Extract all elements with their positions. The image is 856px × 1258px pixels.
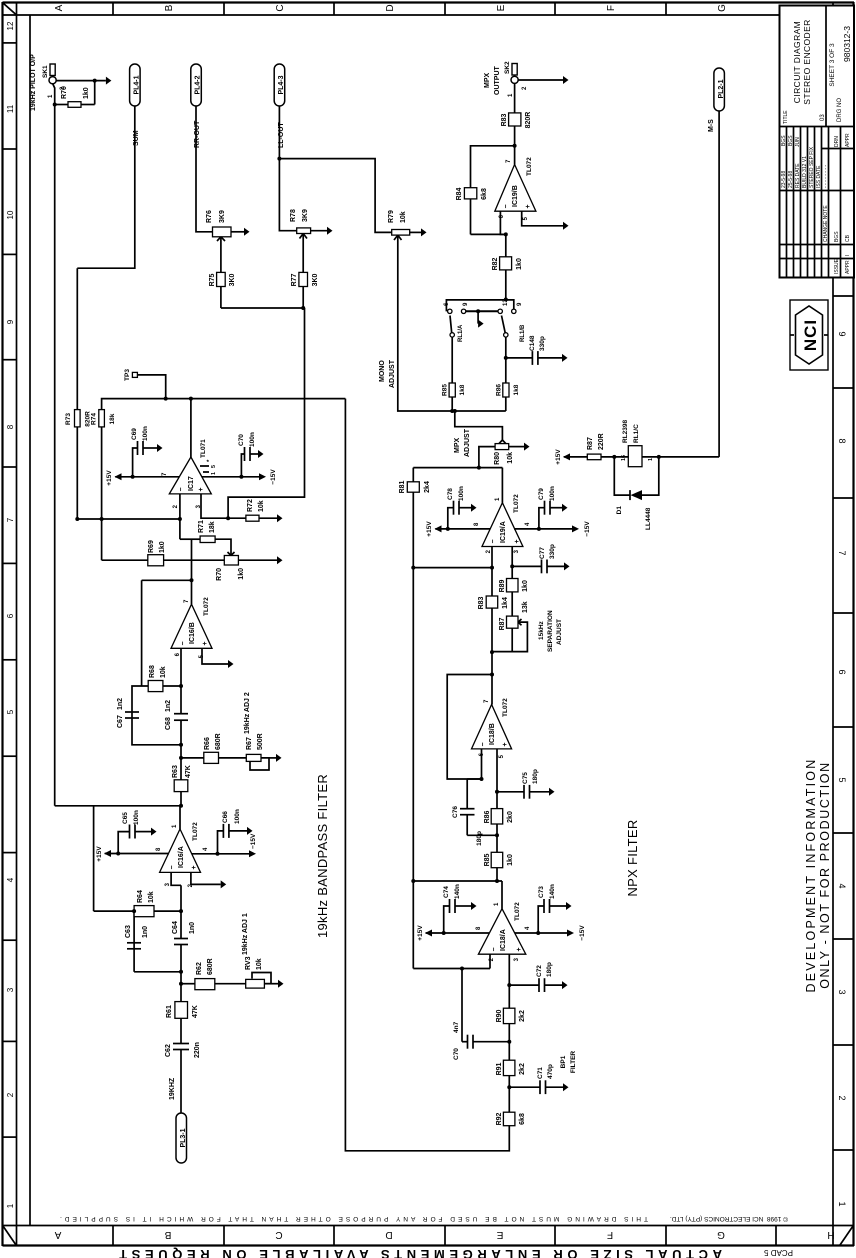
svg-text:© 1998 NCI ELECTRONICS (PTY): © 1998 NCI ELECTRONICS (PTY) LTD.: [670, 1215, 788, 1223]
svg-text:6: 6: [6, 613, 15, 618]
svg-text:8: 8: [476, 926, 482, 930]
capacitor C76 180p: [466, 779, 468, 809]
trimmer R80 10k MPX ADJUST: [495, 444, 509, 450]
svg-text:3: 3: [165, 882, 171, 886]
node output feedback: [513, 144, 517, 148]
svg-text:ADJUST: ADJUST: [464, 428, 471, 457]
svg-text:F: F: [606, 5, 617, 11]
svg-text:+15V: +15V: [417, 925, 424, 941]
wire feedback down: [471, 233, 506, 235]
svg-text:TL072: TL072: [203, 597, 210, 616]
svg-text:THIS DRAWING MUST NOT BE USED: THIS DRAWING MUST NOT BE USED FOR ANY PU…: [57, 1215, 648, 1222]
node pilot R70: [53, 103, 57, 107]
svg-text:100n: 100n: [458, 486, 465, 501]
svg-text:9: 9: [463, 302, 469, 306]
svg-text:H: H: [827, 1229, 834, 1240]
right strip letters A-G: [54, 4, 728, 12]
node IC19/A output: [477, 466, 481, 470]
capacitor C63: [127, 948, 141, 950]
resistor R66 680R: [204, 752, 219, 763]
wire pin2 vertical to long line: [413, 968, 490, 970]
svg-text:C148: C148: [529, 335, 536, 351]
svg-text:R68: R68: [149, 665, 156, 678]
svg-text:+: +: [191, 865, 198, 869]
wire R81 to output vertical: [412, 468, 414, 482]
svg-text:9: 9: [837, 331, 847, 336]
connector SK2: [511, 76, 518, 83]
svg-text:+: +: [202, 641, 209, 645]
wire chain to C64: [180, 945, 182, 972]
connector PL3 19KHZ input pill: [176, 1113, 187, 1163]
svg-text:R71: R71: [198, 520, 205, 533]
wire R70 to SK1 ground net: [94, 81, 96, 105]
node C70 chain: [507, 1040, 511, 1044]
node summing/R74: [100, 517, 104, 521]
svg-text:180p: 180p: [476, 831, 483, 846]
svg-text:CHANGE NOTE: CHANGE NOTE: [823, 205, 829, 242]
svg-text:CIRCUIT DIAGRAM: CIRCUIT DIAGRAM: [792, 21, 802, 103]
svg-text:10k: 10k: [148, 891, 155, 903]
svg-text:TL072: TL072: [513, 494, 520, 513]
wire IC18/A apex: [501, 881, 503, 909]
node C71: [507, 1085, 511, 1089]
svg-text:19kHz ADJ 1: 19kHz ADJ 1: [242, 913, 249, 955]
ground line with R69: [102, 559, 148, 561]
wire R87 to coil: [601, 456, 628, 458]
svg-text:2k0: 2k0: [507, 811, 514, 823]
svg-text:2: 2: [837, 1095, 847, 1100]
svg-text:820R: 820R: [525, 112, 532, 129]
power +15V IC19/A pin8: [435, 528, 490, 530]
node C73: [536, 931, 540, 935]
connector PL4-3 LL-OUT pill: [274, 64, 285, 106]
revision table small texts: [781, 133, 851, 274]
wire C68 to IC16/B: [180, 648, 182, 713]
wire mono route from LL node: [279, 159, 391, 233]
drawing border top: [29, 15, 31, 1226]
svg-text:−15V: −15V: [250, 833, 257, 849]
node C67 branch: [179, 743, 183, 747]
svg-text:TL072: TL072: [514, 902, 521, 921]
svg-text:NPX FILTER: NPX FILTER: [625, 819, 640, 896]
svg-text:C70: C70: [453, 1048, 460, 1060]
svg-text:RES DATE: RES DATE: [795, 163, 801, 188]
svg-text:TP3: TP3: [124, 369, 131, 381]
node matrix: [301, 306, 305, 310]
wire SK2 ground: [518, 79, 563, 81]
svg-text:3: 3: [514, 549, 520, 553]
resistor R85 1k8: [449, 383, 455, 397]
svg-text:OUTPUT: OUTPUT: [494, 66, 501, 96]
svg-text:R92: R92: [496, 1112, 503, 1125]
wire R74 right to bus corner: [102, 399, 346, 410]
svg-text:ONLY - NOT FOR PRODUCTION: ONLY - NOT FOR PRODUCTION: [818, 761, 832, 989]
ground: [327, 227, 333, 235]
wire TP3: [137, 375, 165, 399]
svg-text:SUM: SUM: [133, 130, 140, 146]
svg-text:1: 1: [211, 472, 217, 475]
trimmer R79 10k MONO: [392, 230, 410, 236]
svg-text:180p: 180p: [546, 962, 553, 977]
svg-text:R85: R85: [484, 853, 491, 866]
wire R76 wiper to R75: [220, 237, 222, 273]
svg-text:C73: C73: [538, 886, 545, 898]
resistor R91 2k2: [503, 1060, 515, 1075]
svg-text:R83: R83: [501, 113, 508, 126]
wire pin2 stub: [489, 954, 491, 968]
wire R64 top to feedback: [94, 910, 135, 912]
relay feed route to contact 6: [446, 300, 505, 311]
svg-text:SHEET 3 OF 3: SHEET 3 OF 3: [829, 43, 836, 87]
wire R89 to R87 trimmer: [511, 592, 513, 616]
trimmer R70 1k0: [224, 556, 238, 566]
svg-text:SEPARATION: SEPARATION: [547, 610, 554, 652]
svg-text:2k4: 2k4: [424, 481, 431, 493]
svg-text:4n7: 4n7: [453, 1021, 460, 1033]
wire trimmer to ground: [238, 559, 277, 561]
op-amp IC19/A: [482, 503, 523, 547]
resistor R61 47K: [175, 1002, 188, 1019]
svg-text:−: −: [491, 947, 498, 951]
svg-text:+15V: +15V: [426, 521, 433, 537]
right strip line: [3, 14, 855, 16]
svg-text:TL072: TL072: [192, 822, 199, 841]
node IC16/B output: [190, 578, 194, 582]
title block main divider vertical: [780, 126, 855, 128]
wire output vertical: [413, 467, 502, 469]
wire R79 to ground: [410, 231, 421, 233]
svg-text:STEREO ENCODER: STEREO ENCODER: [802, 19, 812, 104]
svg-text:PL2-1: PL2-1: [718, 79, 725, 98]
wire pin6 stub: [481, 749, 483, 779]
svg-text:5: 5: [499, 754, 505, 758]
svg-text:R66: R66: [204, 737, 211, 750]
svg-text:19kHz PILOT O/P: 19kHz PILOT O/P: [30, 54, 37, 111]
resistor R86 2k0: [491, 809, 503, 824]
svg-text:330p: 330p: [539, 336, 546, 351]
svg-text:C76: C76: [452, 806, 459, 818]
svg-text:1n0: 1n0: [142, 926, 149, 938]
svg-text:1: 1: [837, 1201, 847, 1206]
svg-text:BGS: BGS: [781, 135, 787, 146]
capacitor C75 180p: [497, 791, 524, 793]
node C66: [216, 852, 220, 856]
svg-text:−: −: [169, 865, 176, 869]
wire output to R63: [180, 791, 182, 806]
left strip line: [3, 1225, 855, 1227]
svg-text:2k2: 2k2: [519, 1063, 526, 1075]
test point TP3: [132, 372, 137, 377]
node R62 branch: [179, 982, 183, 986]
svg-text:5: 5: [6, 709, 15, 714]
capacitor C71 470p: [509, 1086, 539, 1088]
svg-text:1n2: 1n2: [117, 698, 124, 710]
svg-text:E: E: [496, 4, 507, 11]
ground: [106, 77, 112, 85]
wire feedback horizontal: [470, 199, 472, 235]
resistor R87 220R: [587, 454, 601, 460]
svg-text:C64: C64: [172, 921, 179, 934]
wire R66 to R67: [219, 757, 247, 759]
wire R73 right to SUM column: [76, 268, 78, 409]
svg-text:ACTUAL SIZE OR ENLARGEMENTS AV: ACTUAL SIZE OR ENLARGEMENTS AVAILABLE ON…: [115, 1247, 722, 1258]
node long line to pin2: [411, 566, 415, 570]
svg-text:R82: R82: [492, 257, 499, 270]
resistor R92 6k8: [503, 1112, 515, 1126]
resistor R63 47K: [174, 780, 188, 792]
resistor R73 820R: [75, 410, 81, 427]
svg-text:8: 8: [474, 522, 480, 526]
ground: [244, 228, 250, 236]
svg-text:R87: R87: [499, 617, 506, 630]
ground: [221, 880, 227, 888]
bottom strip numbers 1-9: [837, 331, 847, 1206]
svg-text:7: 7: [184, 599, 190, 603]
svg-text:DRG NO: DRG NO: [837, 98, 843, 122]
wire pin2 stub: [491, 547, 493, 568]
resistor R84 6k8: [464, 188, 476, 199]
wire R82 to pin6 node: [505, 234, 507, 256]
svg-text:D: D: [385, 4, 396, 11]
svg-text:TL071: TL071: [200, 439, 207, 458]
svg-text:C70: C70: [238, 434, 245, 446]
wire RV3 to ground: [264, 983, 278, 985]
wire pin6 down to C76: [467, 778, 481, 780]
outer border bottom: [852, 2, 854, 1246]
wire IC17 output to bus: [190, 399, 192, 457]
svg-text:7: 7: [162, 472, 168, 476]
svg-text:IC18/A: IC18/A: [500, 929, 507, 951]
resistor R83 1k4: [486, 596, 498, 608]
wire R71 column top: [180, 538, 192, 540]
svg-text:12: 12: [6, 21, 15, 30]
svg-text:C: C: [275, 1229, 282, 1240]
wire R71 to R70 wiper: [215, 539, 231, 555]
wire pin3 net: [201, 494, 228, 518]
svg-text:1: 1: [494, 902, 500, 906]
wire R90 to C70 node: [508, 1024, 510, 1063]
wire LL line: [278, 106, 280, 159]
title block outline: [780, 6, 855, 278]
svg-text:IC17: IC17: [188, 476, 195, 491]
svg-text:R77: R77: [291, 273, 298, 286]
capacitor C70 decoupling: [241, 454, 244, 477]
wire pilot line: [54, 105, 56, 806]
svg-text:B: B: [164, 4, 175, 11]
wire R77 to matrix node: [302, 287, 304, 309]
svg-text:4: 4: [6, 877, 15, 882]
svg-text:220n: 220n: [194, 1042, 201, 1058]
svg-text:8: 8: [6, 424, 15, 429]
svg-text:RR-OUT: RR-OUT: [194, 120, 201, 148]
svg-text:4: 4: [525, 522, 531, 526]
wire C62 to R61: [180, 1018, 182, 1043]
svg-text:2k2: 2k2: [519, 1010, 526, 1022]
svg-text:03: 03: [820, 114, 826, 121]
svg-text:1k0: 1k0: [507, 854, 514, 866]
resistor R68 10k: [148, 681, 163, 692]
wire RR line: [196, 106, 213, 232]
op-amp IC17: [169, 457, 211, 494]
svg-text:47K: 47K: [185, 765, 192, 778]
bottom strip number dividers: [833, 296, 854, 1150]
connector SK1: [49, 77, 56, 84]
wire IC16/B output: [191, 580, 193, 604]
svg-text:+: +: [525, 204, 532, 208]
svg-text:TL072: TL072: [502, 698, 509, 717]
NCI logo emblem: [796, 306, 823, 364]
wire R87 wiper loop: [492, 622, 527, 652]
wire IC16/A output: [179, 806, 181, 829]
node pin2: [178, 517, 182, 521]
revision table rows: [787, 127, 841, 278]
svg-text:470p: 470p: [547, 1064, 554, 1079]
svg-text:IC16/A: IC16/A: [178, 846, 185, 868]
revision table columns: [780, 149, 855, 259]
wire R80 wiper route: [455, 411, 503, 440]
svg-text:+: +: [514, 539, 521, 543]
svg-text:330p: 330p: [549, 544, 556, 559]
svg-text:DEVELOPMENT INFORMATION: DEVELOPMENT INFORMATION: [804, 758, 818, 993]
resistor R83 820R output: [509, 113, 521, 126]
svg-text:−: −: [503, 204, 510, 208]
svg-text:RL2398: RL2398: [622, 419, 629, 443]
svg-text:RV3: RV3: [245, 956, 252, 970]
capacitor C72 180p: [509, 984, 538, 986]
svg-text:680R: 680R: [215, 733, 222, 750]
svg-text:100n: 100n: [234, 809, 241, 824]
corner diagonal top-right: [3, 3, 17, 15]
node relay bus to R82: [504, 298, 508, 302]
wire C67 branch: [132, 686, 181, 745]
svg-text:PL3-1: PL3-1: [180, 1128, 187, 1147]
node C74: [442, 931, 446, 935]
svg-text:R89: R89: [499, 579, 506, 592]
svg-text:R87: R87: [587, 437, 594, 450]
resistor R89 1k0: [507, 579, 519, 592]
node R66 branch: [179, 756, 183, 760]
node output: [179, 804, 183, 808]
svg-text:M-S: M-S: [708, 119, 715, 132]
resistor R81 2k4: [407, 482, 419, 492]
svg-text:R64: R64: [137, 890, 144, 903]
ground: [276, 754, 282, 762]
svg-text:C63: C63: [125, 925, 132, 938]
power -15V IC19/A pin4: [514, 528, 573, 530]
outer border top: [1, 2, 3, 1246]
svg-text:NCI: NCI: [801, 319, 820, 351]
svg-text:R67: R67: [246, 737, 253, 750]
wire R69 to trimmer: [164, 559, 225, 561]
node IC17 out bus: [189, 397, 193, 401]
svg-text:PL4-2: PL4-2: [195, 75, 202, 94]
svg-text:C77: C77: [539, 547, 546, 559]
ground: [277, 556, 283, 564]
node C76 chain: [495, 833, 499, 837]
node C75: [495, 790, 499, 794]
svg-text:5: 5: [837, 777, 847, 782]
node C78: [446, 527, 450, 531]
wire R67 to ground: [269, 757, 276, 759]
svg-text:140n: 140n: [454, 884, 461, 899]
wire feedback down to output node: [55, 805, 181, 807]
svg-text:+: +: [502, 742, 509, 746]
svg-text:23-5-98: 23-5-98: [781, 171, 787, 188]
svg-text:R69: R69: [148, 540, 155, 553]
svg-text:FILTER: FILTER: [570, 1051, 577, 1074]
svg-text:10k: 10k: [160, 666, 167, 678]
svg-text:9: 9: [6, 319, 15, 324]
node R68 chain: [179, 684, 183, 688]
svg-text:1: 1: [48, 94, 54, 98]
node C63 junction: [179, 970, 183, 974]
node C65: [116, 852, 120, 856]
svg-text:1: 1: [6, 1203, 15, 1208]
svg-text:1: 1: [508, 93, 514, 97]
svg-text:10k: 10k: [400, 211, 407, 223]
op-amp IC18/A: [478, 909, 525, 955]
svg-text:980312-3: 980312-3: [842, 26, 852, 62]
svg-text:5: 5: [523, 216, 529, 220]
svg-text:−15V: −15V: [270, 469, 277, 485]
svg-text:R78: R78: [290, 209, 297, 222]
wire R85 to IC18/A output node: [496, 868, 498, 881]
diode LL4448 flyback: [614, 457, 630, 495]
wire non-inv ground jog: [191, 872, 221, 884]
svg-text:LL4448: LL4448: [645, 507, 652, 530]
svg-text:TITLE: TITLE: [783, 110, 789, 124]
wire pin6: [500, 211, 505, 234]
outer border left: [3, 1244, 855, 1246]
node R85 tap: [450, 409, 454, 413]
svg-text:R70: R70: [61, 86, 68, 99]
svg-text:10: 10: [6, 210, 15, 219]
svg-text:1k8: 1k8: [459, 384, 466, 395]
svg-text:9: 9: [517, 302, 523, 306]
top strip line: [16, 2, 18, 1246]
svg-text:C72: C72: [536, 965, 543, 977]
capacitor C67: [125, 717, 139, 719]
svg-text:B: B: [164, 1229, 171, 1240]
capacitor C69 decoupling: [133, 448, 137, 477]
svg-text:R76: R76: [206, 210, 213, 223]
power +15V IC18/A pin8: [426, 932, 489, 934]
svg-text:A: A: [54, 1229, 61, 1240]
relay feed stub to RL1/B contact 9: [506, 300, 514, 309]
svg-text:RL1/C: RL1/C: [633, 424, 640, 443]
wire to R82: [505, 270, 507, 300]
svg-text:3K9: 3K9: [302, 209, 309, 222]
right strip letter dividers: [113, 3, 666, 16]
wire LL to R78: [279, 159, 296, 231]
node pin3: [226, 516, 230, 520]
wire IC19/B output: [514, 126, 516, 165]
node TP3 bus: [164, 397, 168, 401]
resistor R62 680R: [195, 979, 215, 990]
wire coil to M-S node: [642, 456, 719, 458]
svg-text:1: 1: [648, 458, 654, 461]
svg-text:5: 5: [211, 465, 217, 468]
wire pin2 jog: [171, 872, 181, 885]
power +15V IC16/A pin8: [105, 853, 169, 855]
resistor R90 2k2: [503, 1008, 515, 1023]
resistor R64 10k: [134, 906, 154, 917]
svg-text:3K0: 3K0: [229, 273, 236, 286]
wire R76 to ground: [231, 231, 244, 233]
svg-text:1n0: 1n0: [189, 922, 196, 934]
svg-text:- - - - - - - -: - - - - - - - -: [823, 165, 829, 188]
svg-text:C67: C67: [117, 715, 124, 728]
